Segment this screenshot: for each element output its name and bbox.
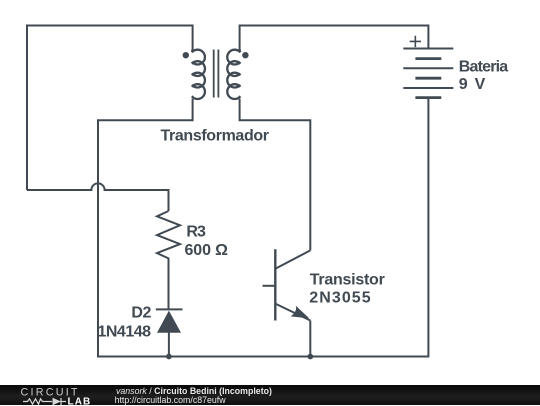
svg-text:2N3055: 2N3055 [309,289,371,306]
svg-text:R3: R3 [186,223,206,240]
svg-text:9 V: 9 V [459,76,486,93]
svg-text:Transformador: Transformador [161,127,270,144]
svg-text:600 Ω: 600 Ω [185,242,229,259]
svg-text:1N4148: 1N4148 [98,323,152,340]
svg-text:Bateria: Bateria [459,59,509,76]
svg-text:LAB: LAB [68,396,92,406]
svg-text:D2: D2 [131,305,151,322]
svg-text:Transistor: Transistor [310,271,385,288]
